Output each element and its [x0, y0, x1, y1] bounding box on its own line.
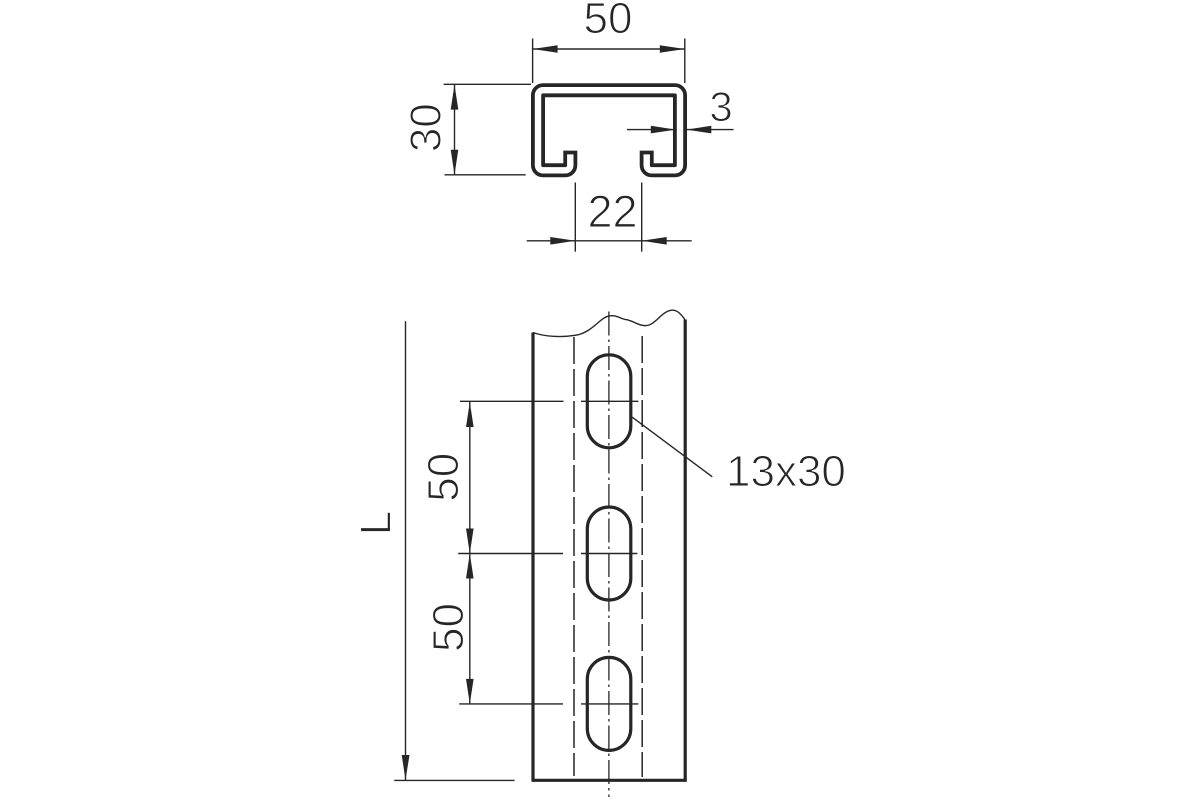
hidden dashed line left (slot edge)	[573, 337, 575, 776]
slot center ticks / extension lines	[458, 401, 638, 704]
dimension L (overall length)	[405, 321, 407, 780]
leader line for slot size	[631, 417, 712, 477]
svg-text:50: 50	[584, 0, 633, 43]
rail right edge	[684, 320, 687, 781]
hidden dashed line right (slot edge)	[641, 336, 643, 777]
dimension 50 (slot spacing lower)	[469, 554, 471, 704]
svg-text:50: 50	[424, 603, 473, 652]
L bottom extension line	[394, 779, 514, 781]
svg-text:30: 30	[401, 103, 450, 152]
svg-text:22: 22	[587, 186, 637, 237]
rail left edge	[531, 333, 534, 781]
profile cross-section metal strip	[538, 90, 680, 170]
dimension 3 (wall thickness, right)	[627, 129, 734, 131]
dash-dot vertical centerline	[608, 312, 610, 798]
rail bottom edge	[532, 779, 687, 782]
slotted hole 3	[587, 657, 631, 750]
dimension 30 (height, left)	[444, 84, 531, 175]
svg-text:13x30: 13x30	[726, 447, 846, 496]
wavy break line (top of rail)	[533, 310, 685, 336]
svg-text:L: L	[352, 511, 401, 535]
dimension 50 (slot spacing upper)	[469, 402, 471, 554]
dimension 50 (top width)	[533, 39, 685, 84]
slotted hole 1 (13x30)	[587, 355, 631, 448]
svg-text:3: 3	[709, 83, 732, 130]
slotted hole 2	[587, 507, 631, 600]
dimension 22 (slot opening)	[527, 183, 692, 252]
svg-text:50: 50	[419, 453, 468, 502]
